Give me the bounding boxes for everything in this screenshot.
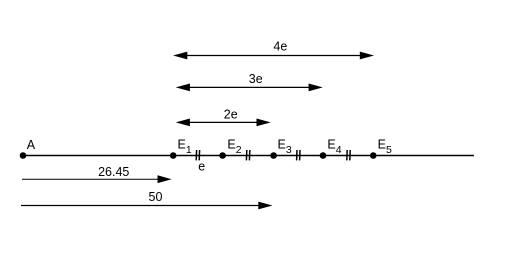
svg-text:50: 50	[149, 190, 163, 204]
svg-text:3e: 3e	[249, 72, 263, 86]
svg-text:2e: 2e	[224, 108, 238, 122]
svg-text:26.45: 26.45	[98, 165, 129, 179]
svg-text:e: e	[198, 160, 205, 174]
svg-text:A: A	[27, 138, 36, 152]
svg-text:4e: 4e	[273, 40, 287, 54]
